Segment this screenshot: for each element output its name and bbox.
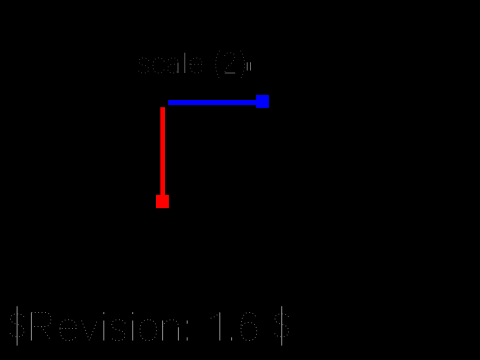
glyph s stroke bbox=[138, 58, 148, 73]
label "scale (2)" curved strokes (faint speckles) bbox=[138, 51, 244, 79]
blue horizontal line bbox=[168, 100, 256, 105]
glyph o stroke bbox=[140, 320, 157, 341]
bottom text "$Revision: 1.6 $" straight stems (faint lines) bbox=[17, 306, 282, 345]
glyph lparen stroke bbox=[216, 51, 220, 79]
glyph i stroke bbox=[132, 321, 134, 341]
glyph e stroke bbox=[190, 63, 202, 65]
glyph e stroke bbox=[60, 320, 77, 329]
glyph n stroke bbox=[177, 327, 179, 340]
glyph a stroke bbox=[177, 63, 179, 73]
two small tick marks after ")" bbox=[247, 62, 250, 70]
glyph n stroke bbox=[163, 320, 179, 328]
glyph c stroke bbox=[153, 58, 164, 73]
red square endpoint bbox=[156, 195, 169, 208]
glyph i stroke bbox=[132, 312, 134, 314]
glyph R stroke bbox=[41, 327, 50, 341]
red vertical line bbox=[160, 107, 165, 195]
glyph 6 stroke bbox=[241, 313, 257, 341]
glyph dollar stroke bbox=[275, 314, 289, 337]
label "scale (2)" straight stems (faint lines) bbox=[178, 53, 235, 73]
glyph R stroke bbox=[31, 313, 50, 327]
glyph i stroke bbox=[103, 312, 105, 314]
glyph dollar stroke bbox=[10, 314, 24, 337]
glyph 1 stroke bbox=[211, 313, 220, 319]
glyph colon stroke bbox=[186, 337, 188, 340]
glyph i stroke bbox=[103, 321, 105, 341]
glyph dollar stroke bbox=[16, 306, 18, 345]
glyph 2 stroke bbox=[225, 53, 235, 73]
glyph e stroke bbox=[190, 64, 202, 73]
blue square endpoint bbox=[256, 95, 269, 108]
glyph a stroke bbox=[168, 64, 178, 73]
glyph n stroke bbox=[162, 321, 164, 341]
glyph period stroke bbox=[231, 337, 233, 340]
glyph 1 stroke bbox=[219, 313, 221, 341]
glyph s stroke bbox=[111, 320, 125, 341]
glyph v stroke bbox=[82, 321, 98, 341]
glyph colon stroke bbox=[186, 321, 188, 324]
glyph rparen stroke bbox=[241, 51, 245, 79]
glyph R stroke bbox=[30, 313, 32, 341]
glyph dollar stroke bbox=[281, 306, 283, 345]
glyph e stroke bbox=[60, 328, 76, 330]
glyph e stroke bbox=[60, 329, 76, 341]
glyph a stroke bbox=[168, 58, 178, 63]
glyph 2 stroke bbox=[225, 72, 235, 74]
bottom text "$Revision: 1.6 $" curved strokes (faint speckles) bbox=[10, 313, 289, 341]
glyph e stroke bbox=[190, 58, 202, 64]
glyph l stroke bbox=[184, 53, 186, 73]
